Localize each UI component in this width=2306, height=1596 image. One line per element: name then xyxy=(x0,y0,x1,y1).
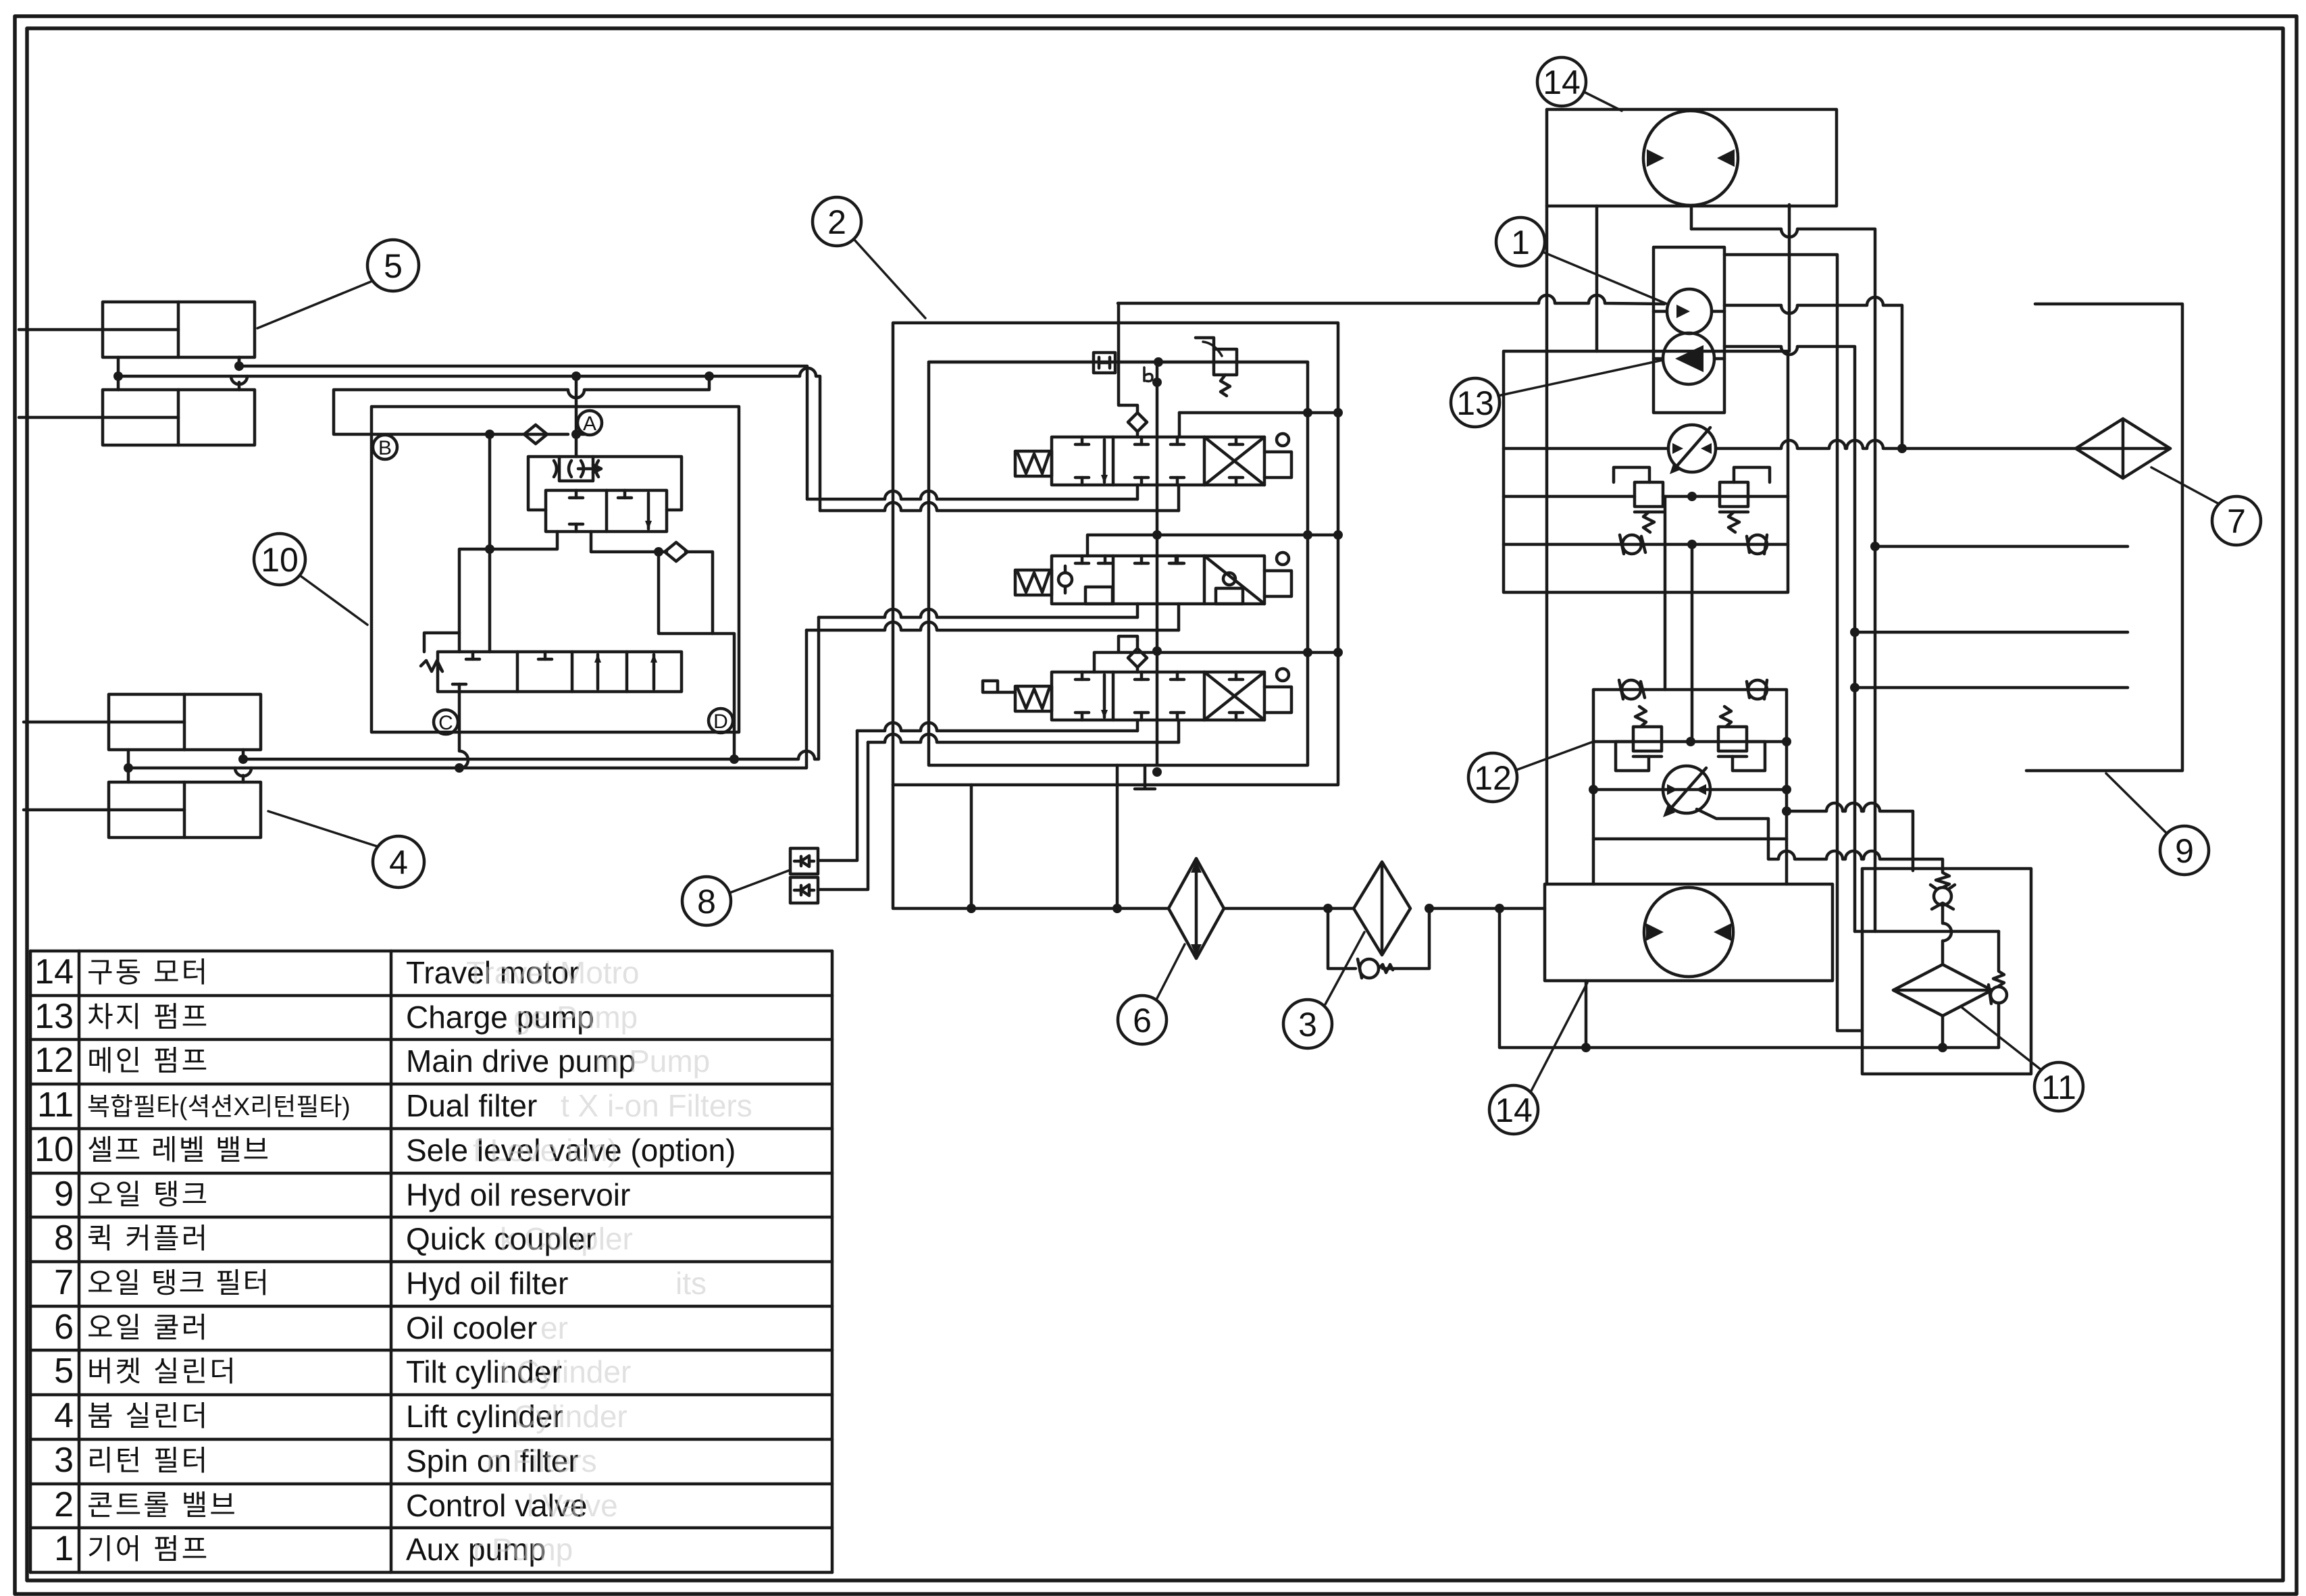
wire valve drain left to cooler xyxy=(893,785,1169,908)
wire block2 to motor right xyxy=(1785,839,1789,884)
b pilot mark xyxy=(1144,367,1162,387)
svg-text:Dual filter: Dual filter xyxy=(406,1088,537,1123)
control valve outer box (item 2) xyxy=(893,323,1338,785)
svg-text:C: C xyxy=(438,712,453,734)
svg-text:5: 5 xyxy=(54,1352,74,1391)
wire upper valve right port xyxy=(591,532,667,552)
node pilot2 center xyxy=(1686,737,1695,746)
wire valve drain mid xyxy=(970,785,973,908)
dual filter cross line xyxy=(1855,930,1999,933)
charge pump (item 13) xyxy=(1654,333,1724,384)
svg-text:12: 12 xyxy=(1474,759,1512,797)
node center-792 xyxy=(1152,530,1162,540)
spool2 (lift section) xyxy=(1015,552,1291,604)
wire left bus motor to bottom motor xyxy=(1545,206,1549,884)
svg-text:11: 11 xyxy=(37,1085,74,1125)
svg-text:its: its xyxy=(675,1266,707,1301)
svg-text:9: 9 xyxy=(2175,832,2194,870)
svg-text:복합필타(셕션X리턴필타): 복합필타(셕션X리턴필타) xyxy=(87,1093,351,1121)
svg-text:ge Pump: ge Pump xyxy=(513,1000,638,1035)
svg-text:6: 6 xyxy=(54,1308,74,1347)
legend row 1 Aux pump xyxy=(54,1529,573,1568)
wire motor top right to tank riser2 xyxy=(1724,255,1862,1031)
legend row 3 Spin on filter xyxy=(54,1441,597,1480)
control valve inner box xyxy=(929,362,1308,765)
wire return branch down right xyxy=(1500,908,1943,1048)
wire motor case drain xyxy=(1585,981,1588,1048)
wire to D vertical xyxy=(659,552,713,634)
svg-text:메인 펌프: 메인 펌프 xyxy=(87,1045,209,1077)
node right-port branch xyxy=(654,547,663,557)
wire B branch down to lower valve xyxy=(488,434,492,652)
check valve block1 left xyxy=(1620,535,1645,554)
svg-text:4: 4 xyxy=(54,1396,74,1435)
node B lower-valve branch xyxy=(485,430,494,439)
self level valve outer top line and B loop xyxy=(334,376,709,434)
tilt cylinder lower (item 5) xyxy=(19,390,255,445)
node tilt B xyxy=(113,371,123,381)
wire coupler lower to valve xyxy=(818,742,868,890)
node pilot center xyxy=(1687,492,1697,501)
inner top bus wire xyxy=(929,361,1308,364)
node spool2 wire at inner edge xyxy=(1303,530,1312,540)
svg-text:8: 8 xyxy=(54,1218,74,1258)
legend row 5 Tilt cylinder xyxy=(54,1352,631,1391)
wire tilt B line xyxy=(118,368,820,511)
wire motor center port down xyxy=(1690,206,1693,229)
wire filter to motor block xyxy=(1429,907,1545,910)
svg-text:1: 1 xyxy=(54,1529,74,1568)
label circle 3 xyxy=(1283,932,1364,1048)
svg-text:Hyd oil reservoir: Hyd oil reservoir xyxy=(406,1177,630,1212)
node lift B xyxy=(124,763,133,773)
relief valve right (block2) xyxy=(1718,706,1765,771)
svg-text:6: 6 xyxy=(1133,1002,1152,1039)
lower spool valve of self level xyxy=(421,652,682,692)
svg-text:l Valve: l Valve xyxy=(527,1488,618,1523)
quick coupler box upper (item 8) xyxy=(790,848,818,874)
svg-text:7: 7 xyxy=(54,1263,74,1302)
node return branch xyxy=(1495,904,1504,913)
upper valve brackets xyxy=(528,457,682,510)
node tank-cooler xyxy=(1112,904,1122,913)
legend row 7 Hyd oil filter xyxy=(54,1263,707,1302)
dual filter inlet check xyxy=(1930,871,1955,964)
svg-text:B: B xyxy=(378,437,392,459)
wire spool1 bottom ports xyxy=(1137,485,1179,511)
label circle 11 xyxy=(1962,1008,2083,1111)
node pump2 right xyxy=(1782,785,1791,794)
check valve block2 right xyxy=(1747,680,1767,699)
label circle 8 xyxy=(682,870,790,925)
wire check line block1 xyxy=(1504,543,1788,546)
legend row 8 Quick coupler xyxy=(54,1218,633,1258)
svg-text:2: 2 xyxy=(827,203,846,241)
node center-964 xyxy=(1152,646,1162,656)
node spool3 wire at inner edge xyxy=(1303,648,1312,657)
node left-port mid xyxy=(485,544,494,554)
svg-text:셀프 레벨 밸브: 셀프 레벨 밸브 xyxy=(87,1134,270,1166)
wire C port down xyxy=(459,692,468,769)
svg-text:f Leve ion): f Leve ion) xyxy=(473,1133,618,1168)
relief valve top (control valve) xyxy=(1196,338,1237,396)
wire motor right port loop xyxy=(1691,205,1875,931)
svg-text:콘트롤 밸브: 콘트롤 밸브 xyxy=(87,1489,238,1521)
label circle 13 xyxy=(1451,360,1663,427)
node box-top joint xyxy=(704,371,714,381)
quick coupler box lower (item 8) xyxy=(790,877,818,903)
svg-text:er: er xyxy=(540,1310,568,1345)
svg-text:3: 3 xyxy=(1298,1006,1317,1044)
check valve D branch xyxy=(665,542,688,561)
wire A-port down xyxy=(575,376,578,457)
lift cylinder upper (item 4) xyxy=(24,694,261,750)
legend row 6 Oil cooler xyxy=(54,1308,568,1347)
svg-text:차지 펌프: 차지 펌프 xyxy=(87,1001,209,1033)
svg-text:8: 8 xyxy=(697,883,716,921)
node lift D-join xyxy=(729,754,739,764)
svg-text:구동 모터: 구동 모터 xyxy=(87,956,209,988)
wire tilt A line xyxy=(239,366,807,499)
label circle 14 upper xyxy=(1537,57,1622,111)
spool2 top wire xyxy=(1087,535,1338,556)
svg-text:9: 9 xyxy=(54,1175,74,1214)
label circle 4 xyxy=(268,811,424,887)
spool1 check and pilot feed xyxy=(1119,303,1338,437)
svg-text:오일 쿨러: 오일 쿨러 xyxy=(87,1312,209,1343)
lift cylinder lower (item 4) xyxy=(24,782,261,838)
node block2 return xyxy=(1782,806,1791,816)
label circle 1 xyxy=(1496,217,1667,304)
svg-text:n Filters: n Filters xyxy=(486,1443,597,1478)
tank symbol below valve xyxy=(1135,765,1155,789)
self level valve box (item 10) xyxy=(371,407,739,732)
wire pump2 port line xyxy=(1593,788,1787,792)
svg-text:13: 13 xyxy=(1456,384,1494,422)
svg-text:Travel Motro: Travel Motro xyxy=(466,955,639,990)
wire filter element outlet xyxy=(1941,1016,1945,1048)
svg-text:리턴 필터: 리턴 필터 xyxy=(87,1445,209,1476)
svg-text:11: 11 xyxy=(2041,1069,2076,1106)
label C xyxy=(434,710,458,734)
node top bus b xyxy=(1154,357,1163,367)
svg-text:오일 탱크: 오일 탱크 xyxy=(87,1179,209,1210)
node lift C-join xyxy=(455,763,464,773)
wire spool3 bottom ports xyxy=(1137,720,1179,742)
svg-text:Hyd oil filter: Hyd oil filter xyxy=(406,1266,568,1301)
node tilt A xyxy=(234,361,244,371)
node pilot2 right xyxy=(1782,737,1791,746)
legend row 13 Charge pump xyxy=(34,997,638,1036)
svg-text:13: 13 xyxy=(34,997,74,1036)
wire return stub 3 xyxy=(1855,686,2128,690)
relief valve right (block1) xyxy=(1720,467,1770,532)
svg-text:2: 2 xyxy=(54,1485,74,1524)
check valve block2 left xyxy=(1619,680,1645,699)
tilt cylinder upper (item 5) xyxy=(19,302,255,357)
label circle 7 xyxy=(2151,467,2261,545)
oil cooler (item 6) xyxy=(1169,858,1224,958)
relief valve left (block1) xyxy=(1614,467,1663,532)
upper spool valve body xyxy=(546,490,667,532)
node spool1 wire at inner edge xyxy=(1303,408,1312,417)
svg-text:3: 3 xyxy=(54,1441,74,1480)
wire aux feed top xyxy=(1118,295,1664,304)
wire coupler upper to valve xyxy=(818,731,857,860)
node bypass left xyxy=(1323,904,1333,913)
svg-text:k Coupler: k Coupler xyxy=(500,1221,633,1256)
legend row 4 Lift cylinder xyxy=(54,1396,627,1435)
wire D port down xyxy=(713,634,734,759)
svg-text:10: 10 xyxy=(34,1130,74,1169)
wire pilot line block2 xyxy=(1593,740,1787,744)
hyd oil reservoir (item 9) xyxy=(2026,304,2182,771)
spin on filter (item 3) xyxy=(1354,862,1410,955)
main pump 1 variable xyxy=(1668,425,1716,474)
legend row 10 Sele level valve (option) xyxy=(34,1130,736,1169)
travel motor bottom (item 14) xyxy=(1545,884,1833,981)
check valve on B line xyxy=(524,425,547,444)
node spool3 wire at outer edge xyxy=(1333,648,1343,657)
svg-text:Oil cooler: Oil cooler xyxy=(406,1310,537,1345)
svg-text:1: 1 xyxy=(1511,224,1530,261)
flow control restrictor pair xyxy=(554,457,601,481)
node motor drain xyxy=(1581,1043,1591,1052)
node spool2 wire at outer edge xyxy=(1333,530,1343,540)
svg-text:D: D xyxy=(713,711,728,733)
svg-text:14: 14 xyxy=(34,952,74,992)
svg-text:t Cylinder: t Cylinder xyxy=(500,1354,631,1389)
wire cooler to filter xyxy=(1224,907,1354,910)
wire pump2 drain to filter inlet xyxy=(1697,809,1943,871)
wire valve tank down xyxy=(1116,765,1119,908)
legend row 2 Control valve xyxy=(54,1485,618,1524)
wire interblock left xyxy=(1664,496,1667,690)
svg-text:10: 10 xyxy=(261,541,299,579)
svg-text:오일 탱크 필터: 오일 탱크 필터 xyxy=(87,1267,270,1299)
label circle 10 xyxy=(254,534,367,625)
main pump 2 variable (item 12) xyxy=(1663,766,1710,817)
wire block2 to motor left xyxy=(1592,839,1595,884)
legend table xyxy=(30,951,832,1572)
hyd oil filter (item 7) xyxy=(2076,419,2170,478)
wire tilt ports to pair verticals xyxy=(118,357,247,390)
wire lift B line to riser xyxy=(128,630,806,768)
node center-1143 xyxy=(1152,767,1162,777)
dual filter block (item 11) xyxy=(1862,869,2031,1074)
spool3 (aux section) xyxy=(983,669,1291,720)
svg-text:12: 12 xyxy=(34,1041,74,1080)
dual filter element xyxy=(1893,964,1992,1016)
svg-text:퀵 커플러: 퀵 커플러 xyxy=(87,1222,209,1254)
wire lift A line to riser xyxy=(243,617,819,759)
pump tall rect xyxy=(1654,247,1724,413)
wire return stub 2 xyxy=(1855,631,2128,634)
wire motor left port down xyxy=(1595,206,1599,351)
legend row 14 Travel motor xyxy=(34,952,639,992)
label circle 2 xyxy=(813,197,925,318)
wire pilot line block1 xyxy=(1504,495,1788,498)
spool3 check and top wire xyxy=(1094,636,1338,672)
node filter outlet xyxy=(1938,1043,1947,1052)
wire upper valve left port xyxy=(459,532,557,652)
svg-text:A: A xyxy=(583,413,596,435)
wire pump1 port line xyxy=(1504,440,2076,448)
node pump2 left xyxy=(1589,785,1598,794)
svg-text:r Pump: r Pump xyxy=(473,1532,573,1567)
label circle 12 xyxy=(1468,742,1593,802)
node drain mid xyxy=(967,904,976,913)
svg-text:t X i-on Filters: t X i-on Filters xyxy=(561,1088,752,1123)
node lift A xyxy=(238,754,248,764)
wire interblock right xyxy=(1691,544,1694,742)
main drive pump box (item 12) xyxy=(1593,690,1787,839)
label circle 14 lower xyxy=(1489,983,1587,1134)
svg-text:7: 7 xyxy=(2227,503,2246,540)
aux pump (item 1) xyxy=(1654,289,1907,453)
wire return stub 1 xyxy=(1875,545,2128,548)
svg-text:기어 펌프: 기어 펌프 xyxy=(87,1533,209,1565)
travel motor top (item 14) xyxy=(1547,109,1837,206)
filter bypass loop xyxy=(1328,908,1429,978)
wire block2 to dual filter top xyxy=(1787,803,1913,871)
svg-text:14: 14 xyxy=(1495,1091,1533,1129)
label circle 9 xyxy=(2106,773,2209,875)
legend row 12 Main drive pump xyxy=(34,1041,710,1080)
wire lift ports xyxy=(128,750,251,782)
orifice check box on top bus xyxy=(1094,353,1115,373)
label A xyxy=(578,411,602,435)
svg-text:14: 14 xyxy=(1543,63,1581,101)
label circle 6 xyxy=(1118,944,1185,1044)
node wire2-A-branch xyxy=(571,371,581,381)
node bypass right xyxy=(1425,904,1434,913)
dual filter bypass check xyxy=(1943,931,2007,1048)
node B-A junction xyxy=(571,430,581,439)
svg-text:4: 4 xyxy=(389,844,408,881)
lower valve top-left bracket xyxy=(424,633,459,652)
svg-text:m Pump: m Pump xyxy=(594,1044,710,1079)
pump assembly box (items 1,13) xyxy=(1504,351,1788,592)
node spool1 wire at outer edge xyxy=(1333,408,1343,417)
label circle 5 xyxy=(257,240,419,328)
relief valve left (block2) xyxy=(1616,706,1662,771)
svg-text:붐 실린더: 붐 실린더 xyxy=(87,1400,209,1432)
wire pair1 tilt into valve xyxy=(807,491,1179,511)
spool1 (tilt section) xyxy=(1015,434,1291,485)
label D xyxy=(709,709,733,733)
wire pair2 lift into valve xyxy=(806,609,1179,630)
node check center xyxy=(1687,540,1697,549)
center bus vertical xyxy=(1156,362,1159,765)
wire pair3 coupler into valve xyxy=(857,723,1179,742)
wire spool2 bottom ports xyxy=(1137,604,1179,630)
label B xyxy=(373,435,397,459)
legend row 9 Hyd oil reservoir xyxy=(54,1175,630,1214)
svg-text:Cylinder: Cylinder xyxy=(513,1399,627,1434)
legend row 11 Dual filter xyxy=(37,1085,752,1125)
svg-text:5: 5 xyxy=(384,247,403,285)
check valve block1 right xyxy=(1747,535,1767,554)
svg-text:버켓 실린더: 버켓 실린더 xyxy=(87,1356,238,1387)
